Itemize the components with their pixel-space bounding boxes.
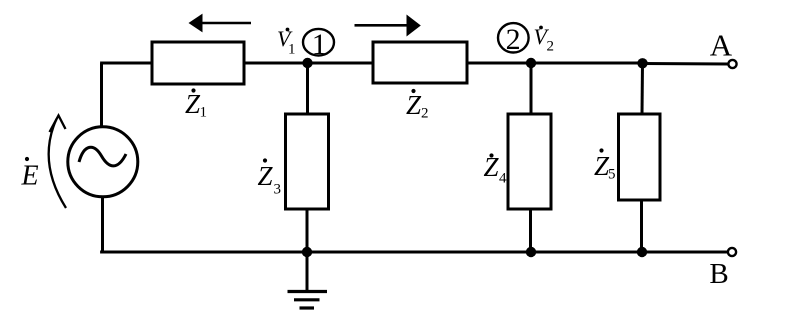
svg-text:1: 1 (312, 28, 327, 61)
wire: Z3 down to bottom bus (306, 209, 309, 252)
node 2 junction dot (526, 58, 536, 68)
ground symbol bar 2 (294, 298, 320, 301)
svg-text:5: 5 (608, 167, 616, 183)
svg-text:1: 1 (200, 105, 208, 121)
current arrow above Z2 (pointing right) shaft (355, 24, 408, 27)
curved arrow head (50, 116, 66, 133)
wire: node 1 down to Z3 (306, 63, 309, 114)
current arrow above Z2 head (407, 15, 421, 37)
wire: bottom bus, ground node to Z4 node (307, 251, 531, 254)
curved arrow (source polarity) arc (49, 119, 66, 208)
resistor Z4 (box) (508, 114, 551, 209)
svg-text:2: 2 (547, 39, 555, 55)
current arrow above Z1 head (189, 14, 203, 33)
wire: Z4 down to bottom bus (529, 209, 532, 252)
svg-text:2: 2 (421, 106, 429, 122)
terminal A (open circle) (728, 60, 736, 68)
ground node junction dot (302, 247, 312, 257)
wire: top bus, junction to terminal A (643, 62, 729, 66)
svg-text:Z: Z (406, 90, 422, 120)
junction dot at Z5 (bottom) (637, 247, 647, 257)
wire: Z5 down to bottom bus (640, 200, 643, 252)
circled node number 1 (303, 29, 334, 56)
circled node number 2 (498, 23, 529, 52)
current arrow above Z1 (pointing left) shaft (201, 22, 251, 25)
wire: node 2 down to Z4 (530, 63, 533, 114)
ground stub wire (306, 252, 309, 291)
svg-text:3: 3 (274, 182, 282, 198)
resistor Z5 (box) (619, 114, 661, 200)
wire: source bottom lead (101, 197, 104, 252)
resistor Z2 (box) (373, 42, 467, 83)
svg-text:1: 1 (288, 42, 296, 58)
wire: top junction down to Z5 (641, 63, 645, 114)
svg-text:A: A (710, 28, 733, 63)
wire: top bus, Z2 to node 2 (467, 62, 531, 65)
svg-text:E: E (21, 161, 39, 192)
wire: bottom bus, Z5 node to terminal B (642, 251, 728, 254)
AC source sine symbol (79, 147, 126, 166)
ground symbol bar 1 (288, 290, 328, 293)
resistor Z3 (box) (286, 114, 329, 209)
terminal B (open circle) (728, 248, 736, 256)
wire: top bus, source to Z1 (100, 62, 152, 65)
junction dot at Z5 branch (top) (637, 58, 647, 68)
AC source E (circle) (68, 127, 138, 197)
junction dot at Z4 (bottom) (526, 247, 536, 257)
wire: top bus, Z1 to node 1 (244, 62, 308, 65)
node 1 junction dot (302, 58, 312, 68)
resistor Z1 (box) (152, 42, 244, 84)
svg-text:2: 2 (506, 23, 521, 56)
wire: top-left corner vertical (source top lead) (100, 63, 103, 127)
wire: bottom bus, Z4 node to Z5 node (531, 251, 642, 254)
wire: top bus, node 1 to Z2 (308, 62, 374, 65)
wire: top bus, node 2 to Z5 branch junction (531, 62, 643, 65)
svg-text:4: 4 (499, 171, 507, 187)
wire: bottom bus, source to ground node (100, 251, 307, 254)
svg-text:Z: Z (258, 161, 274, 191)
svg-text:B: B (709, 258, 728, 290)
ground symbol bar 3 (300, 306, 315, 309)
